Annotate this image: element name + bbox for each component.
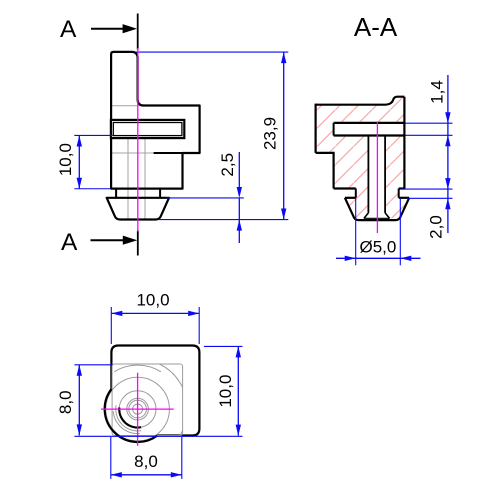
- svg-text:10,0: 10,0: [136, 291, 169, 310]
- dimension diameter 5,0 extension left: [355, 199, 357, 266]
- section neck left: [355, 189, 357, 198]
- section slot left end: [333, 123, 335, 136]
- front pin neck left: [115, 189, 117, 198]
- dimension 10,0 left extension bottom: [74, 188, 110, 190]
- svg-text:A-A: A-A: [354, 12, 398, 42]
- dimension 23,9 line: [283, 52, 285, 219]
- section channel left wall: [367, 136, 369, 213]
- section centerline magenta: [376, 122, 378, 234]
- bottom view crosshair horizontal: [101, 408, 174, 410]
- dimension 10,0 right extension top: [204, 345, 243, 347]
- section head outline with continuous bottom: [345, 198, 409, 220]
- bottom view outer square: [111, 346, 199, 436]
- section bottom left: [334, 187, 356, 189]
- section head top right: [399, 197, 410, 199]
- dimension 2,5 extension top: [167, 197, 244, 199]
- dimension 10,0 left extension top: [74, 134, 112, 136]
- thick arc r33 flange: [105, 389, 158, 442]
- svg-text:A: A: [61, 229, 78, 256]
- dimension 2,5 line: [238, 152, 240, 187]
- dimension 1,4 and 2,0 line: [447, 75, 449, 233]
- svg-text:A: A: [60, 16, 77, 43]
- dimension 23,9 extension bottom (shared): [159, 219, 288, 221]
- svg-text:23,9: 23,9: [261, 117, 280, 150]
- dimension 2,0 extension bottom: [407, 197, 453, 199]
- front pin neck right: [159, 189, 161, 198]
- front centerline magenta: [137, 48, 139, 232]
- bottom view inner thin square: [112, 364, 183, 436]
- arc r44 top: [114, 365, 161, 372]
- section chamfer back edge: [364, 217, 390, 219]
- dimension 8,0 bottom extension left: [110, 437, 112, 479]
- tangent line gray upper: [111, 105, 137, 107]
- svg-text:10,0: 10,0: [216, 375, 235, 408]
- dimension 1,4 extension bottom: [405, 134, 452, 136]
- hatch fill right region: [385, 136, 409, 219]
- dimension 2,0 extension top: [402, 188, 453, 190]
- dimension 10,0 right line: [237, 346, 239, 435]
- svg-text:8,0: 8,0: [56, 390, 75, 414]
- front slot inner: [113, 123, 182, 136]
- circle r8.8: [129, 400, 147, 418]
- dimension 8,0 left line: [78, 365, 80, 436]
- dimension diameter 5,0 extension right: [399, 199, 401, 266]
- section outline top and lip: [316, 97, 405, 105]
- dimension 1,4 extension top: [405, 122, 452, 124]
- front slot outer: [111, 120, 184, 138]
- section bottom right: [399, 187, 405, 189]
- section slot bottom: [334, 134, 405, 136]
- arc r24.5 bottom-left: [113, 411, 140, 433]
- dimension 23,9 extension top: [128, 51, 288, 53]
- svg-text:2,0: 2,0: [427, 215, 446, 239]
- long shared bottom extension: [74, 435, 242, 437]
- bottom view crosshair vertical: [137, 373, 139, 446]
- dimension 10,0 left line: [78, 135, 80, 188]
- thick arc r18.4: [119, 408, 141, 428]
- circle r31.8: [106, 377, 170, 441]
- circle r18.4: [119, 391, 156, 428]
- section left edge: [315, 104, 317, 153]
- svg-text:2,5: 2,5: [218, 153, 237, 177]
- front pin head: [107, 198, 169, 220]
- dimension 8,0 left extension top: [74, 364, 112, 366]
- section step: [316, 153, 334, 189]
- svg-text:Ø5,0: Ø5,0: [359, 238, 396, 257]
- section neck right: [398, 189, 400, 198]
- dimension 8,0 bottom line: [111, 474, 182, 476]
- section head top left: [345, 197, 356, 199]
- dimension diameter 5,0 line: [336, 257, 421, 259]
- arc r50 corner top-right: [160, 364, 183, 387]
- arc r50 corner bottom-right: [180, 431, 183, 436]
- section channel chamfer left: [364, 213, 369, 219]
- tangent line gray mid: [112, 152, 154, 154]
- circle r21.8: [116, 405, 142, 431]
- section line A bottom tick: [137, 231, 139, 256]
- front step edge: [154, 152, 183, 154]
- circle r5: [133, 404, 143, 414]
- circle r10.8: [127, 398, 149, 420]
- tangent line gray vertical left: [127, 138, 129, 218]
- section right edge: [403, 97, 405, 189]
- section channel chamfer right: [385, 213, 390, 219]
- dimension 8,0 bottom extension right: [181, 437, 183, 479]
- section channel right wall: [384, 136, 386, 213]
- section line A top tick: [137, 14, 139, 50]
- dimension 10,0 top line: [111, 312, 199, 314]
- dimension 10,0 top extension left: [110, 307, 112, 344]
- hatch fill left region: [316, 97, 405, 219]
- front body outline: [111, 52, 200, 189]
- svg-text:8,0: 8,0: [134, 452, 158, 471]
- tangent line gray vertical right: [144, 138, 146, 218]
- section slot top: [334, 122, 405, 124]
- svg-text:1,4: 1,4: [428, 80, 447, 104]
- section arrow A bottom: [91, 239, 125, 241]
- section arrow A top: [91, 28, 124, 30]
- dimension 10,0 top extension right: [198, 307, 200, 344]
- svg-text:10,0: 10,0: [56, 143, 75, 176]
